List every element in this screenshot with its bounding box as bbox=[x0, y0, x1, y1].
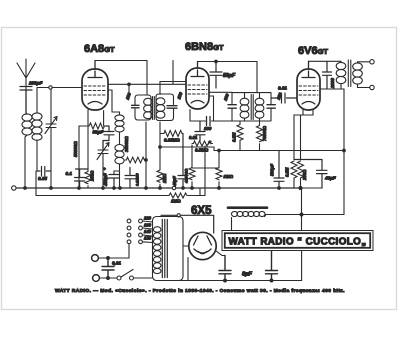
variable capacitor C1 tuning bbox=[45, 90, 57, 189]
svg-text:30000Ω: 30000Ω bbox=[124, 136, 129, 152]
IF1 core bbox=[153, 97, 155, 120]
svg-text:160: 160 bbox=[144, 223, 152, 228]
speaker terminal bottom bbox=[370, 85, 374, 89]
svg-text:250pF: 250pF bbox=[28, 81, 42, 86]
capacitor 250pF bbox=[20, 81, 42, 114]
tube label 6BN8GT bbox=[185, 41, 224, 53]
resistor 50000ohm grid leak bbox=[73, 111, 107, 158]
svg-text:125: 125 bbox=[144, 236, 152, 241]
antenna bbox=[17, 59, 35, 90]
wire IF2 secondary top bbox=[256, 62, 258, 93]
tube 6X5 rectifier bbox=[161, 214, 216, 260]
resistor 1Mohm bias bbox=[169, 188, 200, 204]
capacitor 50pF padder bbox=[93, 126, 115, 148]
wire 6X5 left bbox=[183, 246, 189, 281]
IF2 transformer primary box bbox=[223, 92, 276, 121]
svg-text:250Ω: 250Ω bbox=[302, 169, 307, 181]
capacitor 0.05 bbox=[37, 167, 51, 182]
filter choke bbox=[232, 211, 267, 230]
wire frame bottom right bbox=[266, 213, 344, 216]
resistor 30000ohm bbox=[124, 136, 146, 163]
wire detector out bbox=[159, 146, 214, 151]
svg-text:0.01: 0.01 bbox=[278, 86, 287, 91]
wire 6BN8 plate to IF2 bbox=[209, 91, 232, 93]
wire B+ rail middle bbox=[198, 61, 258, 63]
power transformer core bbox=[162, 220, 167, 278]
wire plate drop to IF1 bbox=[146, 61, 148, 96]
svg-text:1MΩ: 1MΩ bbox=[224, 174, 234, 179]
svg-text:250Ω: 250Ω bbox=[90, 170, 95, 182]
svg-text:1MΩ: 1MΩ bbox=[171, 199, 181, 204]
svg-text:6A8GT: 6A8GT bbox=[84, 43, 115, 55]
resistor 42000ohm bbox=[184, 145, 196, 188]
svg-text:40μF: 40μF bbox=[324, 176, 336, 181]
wire bottom rail bbox=[161, 279, 302, 282]
power transformer body bbox=[153, 217, 184, 281]
bus junction dots bbox=[24, 187, 281, 190]
speaker terminal top bbox=[370, 60, 374, 64]
svg-text:0.01: 0.01 bbox=[189, 135, 198, 140]
caption bbox=[55, 288, 345, 294]
svg-text:0.05: 0.05 bbox=[38, 176, 47, 181]
svg-text:50000Ω: 50000Ω bbox=[73, 141, 78, 157]
svg-text:WATT RADIO “ CUCCIOLO„: WATT RADIO “ CUCCIOLO„ bbox=[228, 237, 366, 248]
svg-text:0.5M: 0.5M bbox=[285, 167, 290, 177]
wire 6BN8 diode bbox=[190, 96, 232, 121]
wire avc tap bbox=[192, 167, 219, 169]
junction dot bbox=[215, 60, 218, 63]
junction dot bbox=[128, 83, 131, 86]
capacitor 500pF bbox=[270, 151, 285, 189]
capacitor 0.01 mains bbox=[102, 258, 121, 278]
junction dot B- bbox=[299, 186, 302, 189]
svg-text:8μF: 8μF bbox=[242, 272, 252, 278]
wire B- drop bbox=[301, 188, 303, 281]
capacitor 0.1 cathode bbox=[66, 169, 89, 188]
capacitor 40pF bbox=[172, 134, 188, 189]
mains terminal upper bbox=[92, 255, 129, 262]
svg-text:0,01: 0,01 bbox=[112, 261, 121, 266]
svg-text:0.25MΩ: 0.25MΩ bbox=[164, 138, 180, 143]
wire osc grid bbox=[108, 90, 112, 112]
svg-text:40pF: 40pF bbox=[172, 176, 177, 187]
junction dots mains bbox=[107, 257, 110, 280]
svg-text:70000Ω: 70000Ω bbox=[262, 125, 267, 141]
output transformer core bbox=[348, 60, 351, 87]
svg-text:6V6GT: 6V6GT bbox=[298, 45, 328, 57]
B- bus bbox=[36, 195, 169, 197]
bus open node bbox=[172, 186, 175, 189]
tube label 6A8GT bbox=[84, 43, 115, 55]
switch mains bbox=[117, 270, 153, 281]
resistor 0.5Mohm grid leak bbox=[285, 161, 298, 188]
WATT RADIO CUCCIOLO box bbox=[222, 231, 373, 251]
svg-text:0.5M: 0.5M bbox=[232, 132, 237, 142]
svg-text:100: 100 bbox=[204, 126, 212, 131]
resistor 0.25Mohm bbox=[160, 131, 183, 143]
wire B+ top rail left bbox=[95, 60, 147, 62]
svg-text:+: + bbox=[103, 167, 106, 172]
mains tap terminals bbox=[139, 216, 153, 244]
wire 6X5 heater out bbox=[216, 251, 226, 256]
svg-text:220: 220 bbox=[143, 216, 152, 221]
capacitor 400pF electrolytic bbox=[103, 167, 120, 189]
capacitor 2000pF tone bbox=[323, 61, 336, 89]
svg-text:0.1: 0.1 bbox=[66, 171, 73, 176]
variable capacitor C2 oscillator bbox=[97, 141, 109, 189]
wire B- riser bbox=[35, 171, 37, 196]
svg-text:400pF: 400pF bbox=[103, 173, 108, 187]
antenna coil L1 primary bbox=[22, 113, 32, 188]
wire cathode network bottom bbox=[294, 187, 322, 189]
resistor 70000ohm bbox=[257, 121, 268, 151]
svg-text:WATT RADIO. — Mod. «Cucciolo».: WATT RADIO. — Mod. «Cucciolo». - Prodott… bbox=[55, 288, 345, 294]
svg-text:2000: 2000 bbox=[330, 78, 335, 89]
bus terminal circle bbox=[12, 186, 16, 190]
wire grid return bbox=[79, 126, 87, 188]
svg-text:50pF: 50pF bbox=[223, 73, 236, 79]
resistor 1Mohm IF1 return bbox=[157, 122, 167, 188]
capacitor 8uF first bbox=[219, 256, 252, 281]
tube label 6X5 bbox=[191, 205, 212, 217]
svg-text:50pF: 50pF bbox=[93, 130, 104, 135]
node circle on grid wire bbox=[49, 86, 52, 89]
capacitor 40uF electrolytic bbox=[294, 160, 336, 189]
ground bus bbox=[16, 187, 301, 189]
wire AVC line bbox=[108, 84, 129, 95]
capacitor diode coupling bbox=[207, 117, 211, 126]
capacitor 50pF plate bbox=[210, 62, 236, 89]
wire B+ rail right bbox=[309, 60, 342, 62]
potentiometer 0.5Mohm volume bbox=[189, 135, 213, 196]
capacitor 100pF det bbox=[195, 121, 212, 141]
svg-text:0.5MΩ: 0.5MΩ bbox=[195, 148, 209, 153]
output transformer primary bbox=[336, 61, 346, 89]
tube 6V6 bbox=[297, 61, 320, 110]
svg-text:140: 140 bbox=[144, 229, 152, 234]
resistor 0.5Mohm IF2 return bbox=[232, 121, 244, 151]
svg-text:500pF: 500pF bbox=[270, 163, 275, 176]
output transformer secondary bbox=[353, 62, 370, 88]
voltage selector terminals bbox=[127, 219, 131, 258]
resistor 1Mohm AVC bbox=[216, 149, 234, 188]
wire grid 6A8 bbox=[37, 87, 82, 89]
svg-text:1MΩ: 1MΩ bbox=[162, 173, 167, 183]
antenna coil L1 secondary bbox=[32, 88, 42, 171]
tube 6A8 bbox=[82, 61, 108, 111]
IF2 transformer secondary box bbox=[255, 91, 283, 121]
wire IF1 primary bottom bbox=[145, 122, 148, 188]
tube 6BN8 bbox=[186, 62, 209, 110]
IF2 core bbox=[251, 95, 253, 120]
svg-text:42000Ω: 42000Ω bbox=[184, 168, 189, 184]
mains terminal lower bbox=[93, 275, 117, 282]
IF1 transformer primary box bbox=[125, 91, 153, 120]
resistor 250ohm cathode bbox=[85, 110, 95, 188]
wire AVC long bbox=[214, 150, 344, 152]
capacitor 0.1-100 bbox=[125, 168, 140, 189]
tube label 6V6GT bbox=[298, 45, 328, 57]
oscillator coil upper bbox=[112, 112, 124, 145]
capacitor 8uF second bbox=[266, 251, 278, 281]
power transformer primary winding bbox=[153, 227, 161, 274]
wire IF1 secondary to 6BN8 grid bbox=[129, 61, 186, 95]
IF1 transformer secondary box bbox=[156, 91, 184, 121]
wire 6V6 plate bbox=[320, 88, 344, 90]
filter choke core bbox=[228, 206, 267, 209]
wire B+ down right bbox=[343, 89, 346, 215]
oscillator coil lower bbox=[114, 145, 124, 189]
resistor 250ohm cathode 6V6 bbox=[298, 161, 308, 188]
capacitor 0.01 coupling bbox=[271, 86, 297, 104]
wire 6V6 cathode bbox=[294, 110, 313, 160]
svg-text:0.1/100: 0.1/100 bbox=[136, 172, 140, 186]
svg-text:6BN8GT: 6BN8GT bbox=[185, 41, 224, 53]
